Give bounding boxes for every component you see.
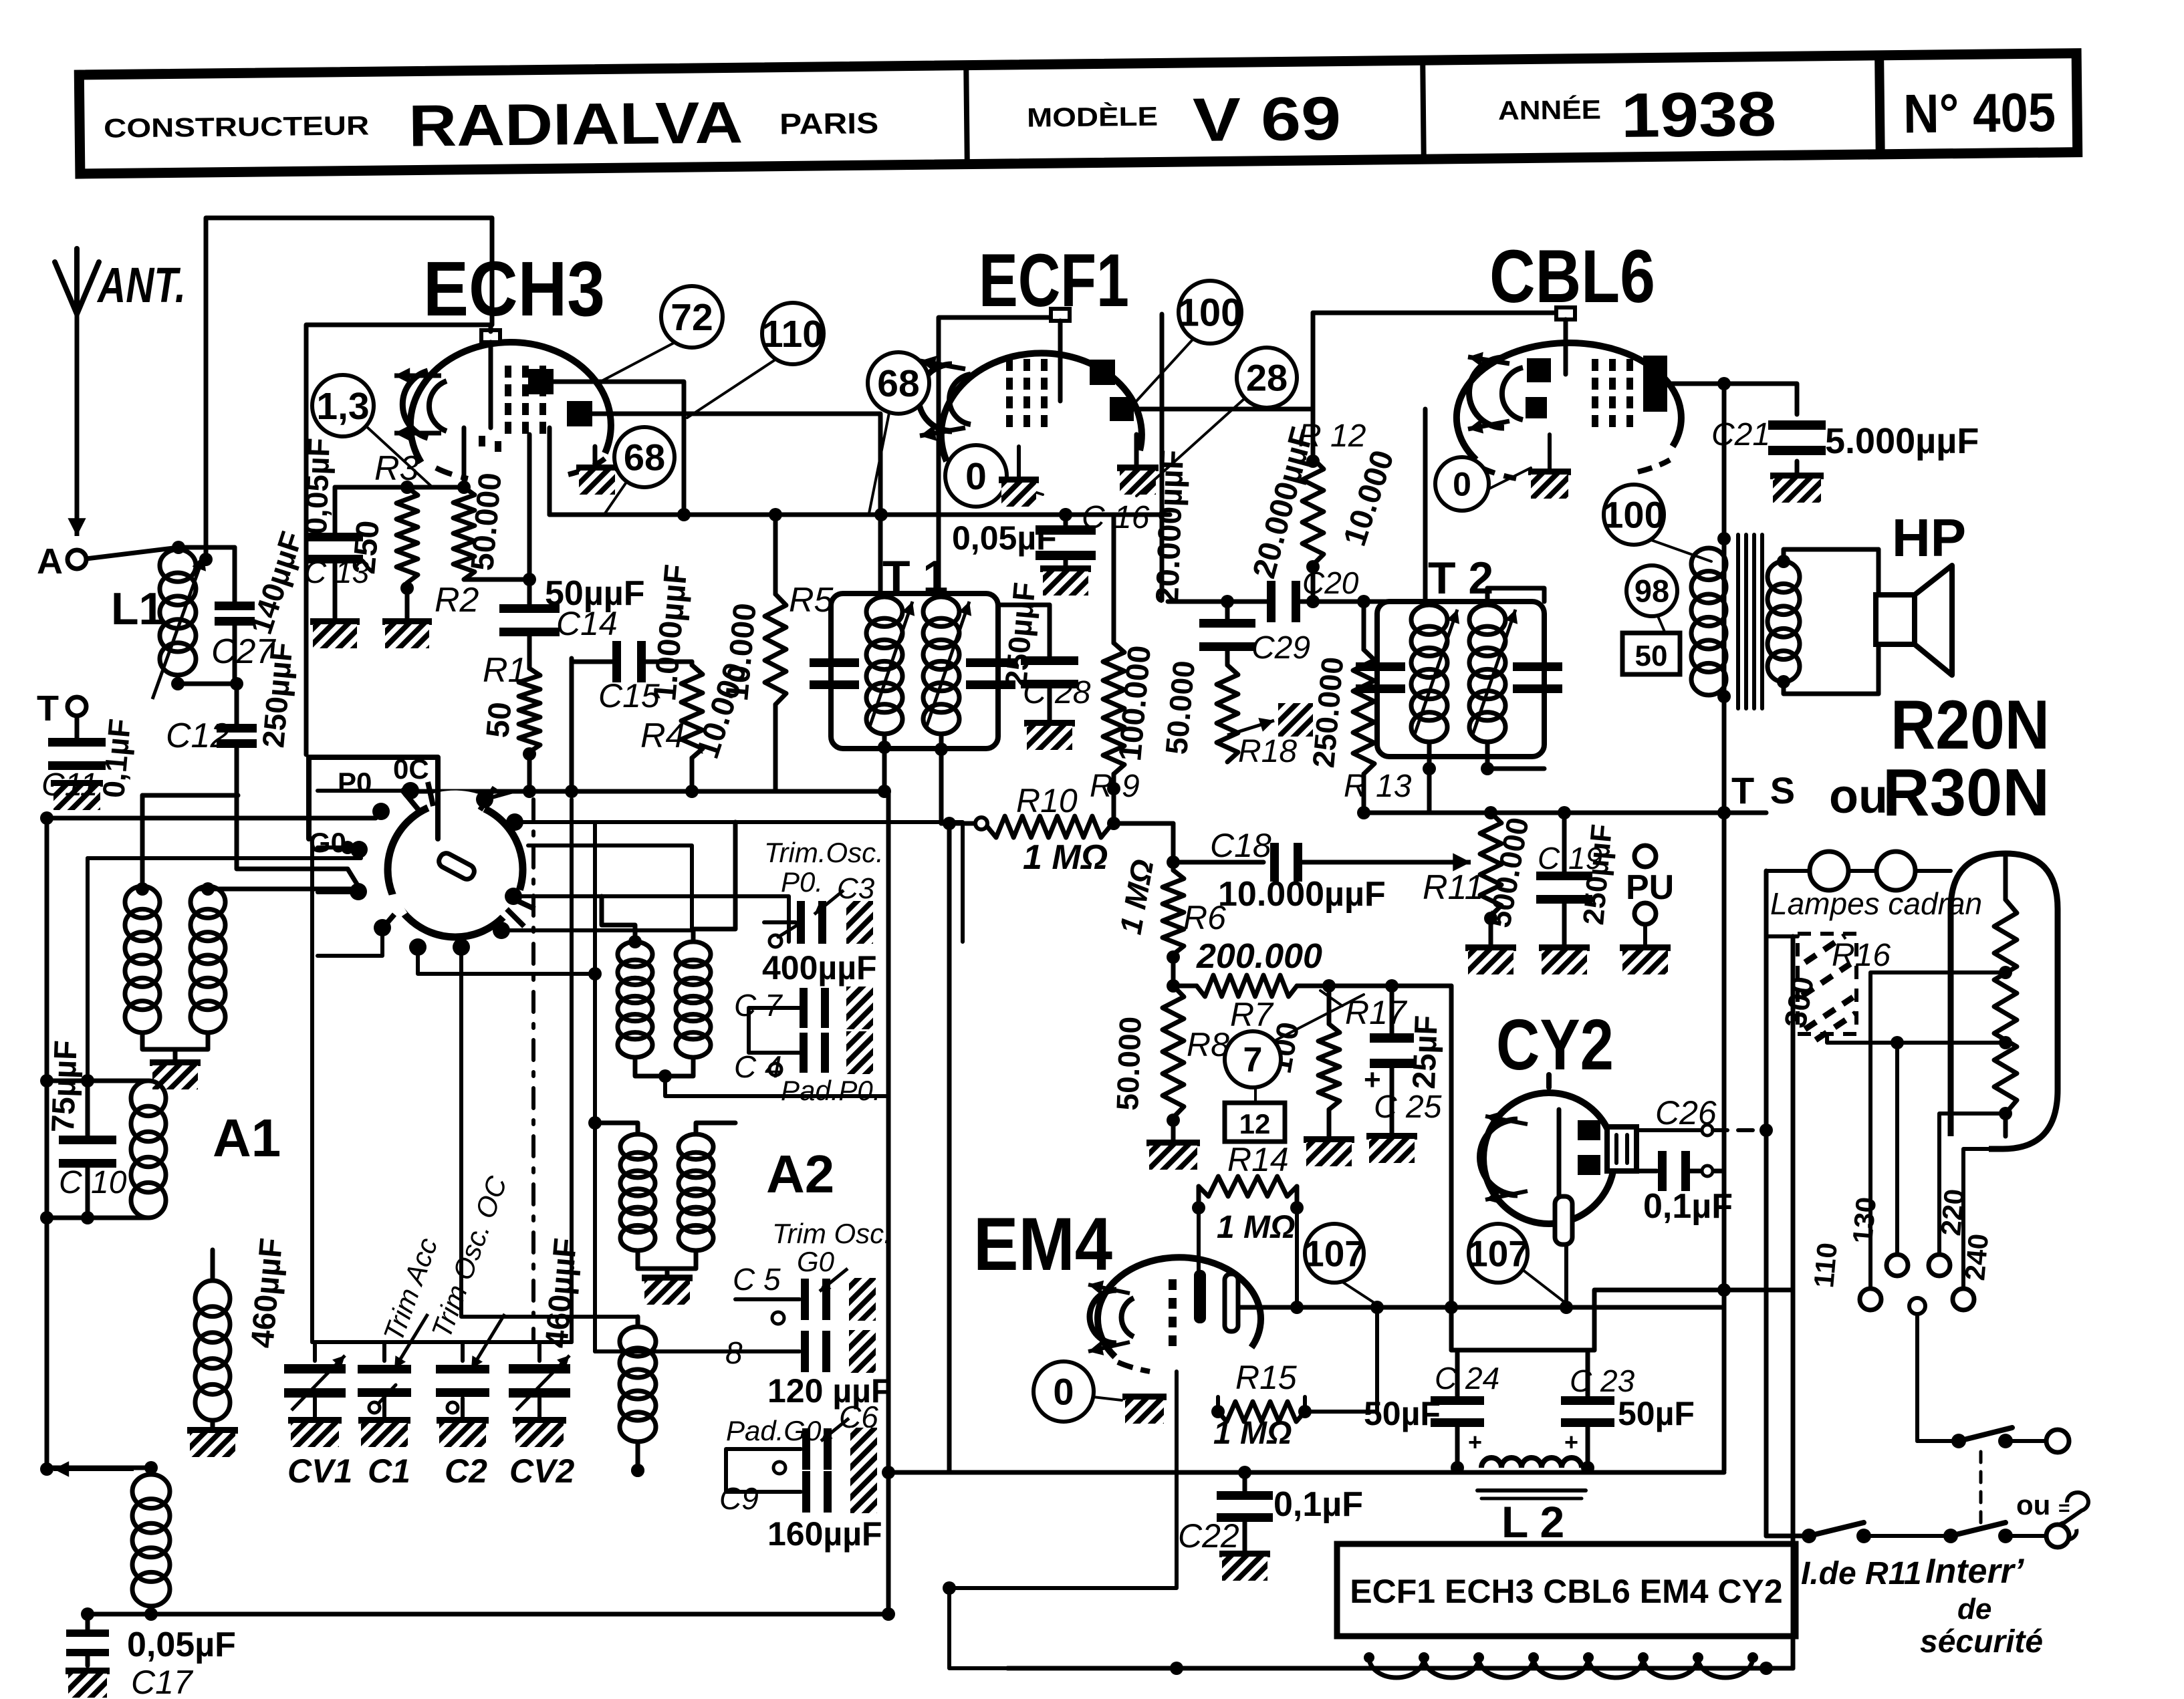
label ou R30N <box>1829 755 2050 830</box>
label tube ECF1 <box>979 239 1129 322</box>
osc pair coil right <box>191 886 225 1033</box>
switch wire a <box>318 789 410 793</box>
svg-text:ECH3: ECH3 <box>423 245 605 332</box>
wire CBL6 anode out <box>1667 377 1731 390</box>
ECF1 grids <box>1006 359 1048 427</box>
wire C15 left <box>570 658 574 791</box>
ground C28 <box>1024 723 1075 750</box>
label 120µµF <box>767 1372 891 1410</box>
wire ECH3 box left <box>548 428 552 515</box>
circle 100 ECF1 <box>1136 281 1242 401</box>
label GO <box>309 827 346 858</box>
switch mains upper <box>1917 1428 2069 1452</box>
tube lineup text <box>1350 1573 1782 1610</box>
svg-text:5.000µµF: 5.000µµF <box>1825 421 1979 461</box>
cap C5 <box>735 1269 876 1324</box>
svg-text:75µµF: 75µµF <box>45 1040 84 1134</box>
CY2 heater bottom <box>1560 1245 1573 1314</box>
label 400µµF <box>762 949 877 987</box>
vert 2171 <box>1445 986 1458 1350</box>
svg-text:200.000: 200.000 <box>1196 937 1322 976</box>
svg-text:V 69: V 69 <box>1193 85 1342 154</box>
svg-text:1 MΩ: 1 MΩ <box>1023 838 1108 877</box>
resistor R10 <box>941 816 1150 837</box>
label C23 <box>1570 1363 1635 1398</box>
label R18 <box>1238 734 1297 769</box>
ground CV1 <box>288 1420 342 1447</box>
circle 107 CY2 <box>1467 1224 1564 1302</box>
label 50 <box>480 700 518 739</box>
resistor R8 <box>1163 986 1184 1118</box>
terminal A <box>37 541 86 581</box>
ground C13 <box>310 622 360 648</box>
svg-text:107: 107 <box>1304 1232 1365 1274</box>
svg-text:R2: R2 <box>435 581 479 620</box>
capacitor C27 <box>215 547 255 684</box>
tube ECF1 envelope <box>919 309 1142 477</box>
wire R7 to R17 <box>1327 986 1332 1024</box>
label 10.000µµF <box>1218 875 1386 914</box>
label 5000µµF <box>1825 421 1979 461</box>
CBL6 anode plate <box>1643 356 1667 412</box>
dropper loop <box>1951 854 2058 1149</box>
svg-text:0: 0 <box>1453 466 1471 503</box>
svg-text:R11: R11 <box>1423 868 1484 907</box>
label C14 <box>556 605 618 642</box>
svg-text:EM4: EM4 <box>973 1202 1112 1286</box>
switch stub e <box>318 928 382 956</box>
label Trim Osc OC <box>425 1172 513 1342</box>
wire node L1-C27 <box>178 677 243 690</box>
capacitor C16 <box>1036 508 1096 569</box>
svg-text:0,05µF: 0,05µF <box>952 519 1057 557</box>
osc coil A1low top <box>211 1250 215 1281</box>
A2 coil pair1 R <box>676 942 711 1057</box>
T2 secondary coil <box>1469 605 1505 742</box>
CY2 heater <box>1555 1109 1572 1245</box>
capacitor C1 <box>358 1342 411 1418</box>
svg-text:1,3: 1,3 <box>316 385 369 428</box>
ground C2 <box>437 1420 489 1447</box>
resistor R12 <box>1302 454 1324 573</box>
capacitor C22 <box>1217 1472 1273 1554</box>
svg-text:+: + <box>1564 1428 1578 1456</box>
svg-text:N° 405: N° 405 <box>1903 82 2056 144</box>
switch wire right2 <box>515 822 963 942</box>
svg-text:MODÈLE: MODÈLE <box>1027 102 1158 133</box>
svg-text:107: 107 <box>1467 1232 1529 1274</box>
resistor R2 <box>453 487 475 579</box>
svg-text:C 28: C 28 <box>1023 675 1091 710</box>
coil ant bottom lead <box>144 1606 158 1621</box>
label 160µµF <box>767 1515 882 1553</box>
svg-text:C2: C2 <box>445 1452 487 1490</box>
label C1 <box>368 1452 410 1490</box>
svg-text:C 24: C 24 <box>1435 1361 1499 1396</box>
wire T2 bottoms <box>1423 742 1494 813</box>
CBL6 grids <box>1592 359 1633 427</box>
label Interr <box>1920 1552 2043 1660</box>
capacitor C11 <box>48 716 106 770</box>
label tube ECH3 <box>423 245 605 332</box>
capacitor C17 <box>66 1607 109 1666</box>
tap4 <box>1963 1149 1989 1289</box>
label 0,1µF CY2 <box>1643 1187 1733 1226</box>
label C13 <box>304 555 370 590</box>
label C29 <box>1251 630 1310 666</box>
svg-text:Pad.P0.: Pad.P0. <box>781 1075 880 1106</box>
svg-text:10.000µµF: 10.000µµF <box>1218 875 1386 914</box>
ECF1 anode pentode <box>1110 397 1134 421</box>
label C8l <box>725 1335 743 1370</box>
T2 arrows <box>1414 610 1518 737</box>
bus 2496 <box>1007 1662 1793 1675</box>
ECF1 cathode arrows <box>920 356 965 440</box>
ECF1 cathode stub <box>999 446 1039 507</box>
svg-text:12: 12 <box>1239 1108 1271 1140</box>
capacitor C24 <box>1431 1350 1484 1474</box>
svg-text:160µµF: 160µµF <box>767 1515 882 1553</box>
TS primary coil <box>1691 539 1726 708</box>
bottom bus left <box>88 1607 895 1621</box>
label R9 <box>1090 769 1140 804</box>
svg-text:130: 130 <box>1846 1196 1882 1245</box>
svg-text:R 12: R 12 <box>1298 418 1366 454</box>
capacitor C2 <box>436 1342 489 1418</box>
svg-text:T 2: T 2 <box>1428 553 1493 604</box>
resistor R1 <box>519 668 540 752</box>
arrow C2 <box>471 1314 505 1369</box>
label 0,05µF C16 <box>952 519 1057 557</box>
ground A1low <box>187 1420 238 1457</box>
antenna ANT <box>55 249 186 314</box>
label C5 <box>733 1262 781 1297</box>
label C10 <box>59 1165 127 1200</box>
A2 coil pair2 R <box>679 1134 713 1251</box>
A2 pair1 bottom <box>635 1057 693 1083</box>
tap1 <box>1870 966 2012 1289</box>
wire T1 sec top <box>937 585 941 592</box>
CBL6 screen squares <box>1526 358 1551 418</box>
svg-text:PARIS: PARIS <box>779 107 879 141</box>
terminal 220 <box>1929 1188 1970 1276</box>
label Trim Acc <box>377 1234 443 1345</box>
label C12 <box>166 716 229 755</box>
tube lineup box <box>1337 1544 1796 1636</box>
label C11 <box>41 767 98 803</box>
svg-text:0,05µF: 0,05µF <box>298 437 336 535</box>
svg-text:ECF1 ECH3 CBL6 EM4 CY2: ECF1 ECH3 CBL6 EM4 CY2 <box>1350 1573 1782 1610</box>
label 460µµF CV2 <box>539 1236 584 1349</box>
circle 110 <box>687 303 824 418</box>
EM4 ground <box>1122 1397 1167 1424</box>
label R20N <box>1891 686 2050 764</box>
circle 0 ECF1 <box>945 445 1043 507</box>
svg-text:R16: R16 <box>1832 938 1891 973</box>
osc coil A1low <box>195 1281 230 1420</box>
svg-text:C11: C11 <box>41 767 98 803</box>
wire left col top <box>45 818 49 1470</box>
capacitor C10 <box>59 1081 116 1218</box>
label C9 <box>719 1481 759 1516</box>
T1 arrows <box>869 602 971 729</box>
svg-text:R18: R18 <box>1238 734 1297 769</box>
wire top to R11 <box>1364 806 1766 819</box>
variable capacitor CV1 <box>284 1342 346 1418</box>
arrow C18 to R11 <box>1309 853 1471 871</box>
wire C7C4 left <box>749 1008 775 1053</box>
svg-text:50: 50 <box>480 700 518 739</box>
svg-text:I.de R11: I.de R11 <box>1801 1556 1922 1591</box>
T1 capacitor primary <box>810 658 859 689</box>
label 0,05µF C13 <box>298 437 336 535</box>
label 250µµF <box>255 641 299 749</box>
R16 bottom wire <box>1827 1034 1897 1043</box>
switch I.deR11 <box>1802 1523 1947 1543</box>
band switch rotor <box>378 782 535 937</box>
svg-text:CONSTRUCTEUR: CONSTRUCTEUR <box>104 111 370 143</box>
svg-text:240: 240 <box>1959 1232 1994 1282</box>
title block header <box>79 53 2077 175</box>
svg-text:C 25: C 25 <box>1374 1089 1442 1125</box>
label R13 <box>1344 769 1412 804</box>
svg-text:8: 8 <box>725 1335 743 1370</box>
resistor R5 <box>765 515 786 791</box>
label C24 <box>1435 1361 1499 1396</box>
label C21 <box>1711 417 1770 452</box>
bus 2203 <box>631 1464 1724 1479</box>
svg-text:C 23: C 23 <box>1570 1363 1635 1398</box>
cable scallop <box>1364 1652 1758 1678</box>
label 460µµF CV1 <box>245 1236 289 1349</box>
ECH3 anode hexode <box>567 401 592 426</box>
label 100 R17 <box>1263 1019 1306 1076</box>
bus 770 <box>550 508 1170 521</box>
label A1 <box>213 1108 281 1168</box>
A2 single bottom <box>631 1442 644 1477</box>
ground R17 <box>1304 1109 1354 1166</box>
GO contact <box>341 841 354 854</box>
circle 7 <box>1225 995 1364 1103</box>
capacitor 0,1uF CY2 <box>1636 1151 1724 1191</box>
resistor R4 <box>681 665 703 798</box>
svg-text:ANNÉE: ANNÉE <box>1498 94 1601 126</box>
circle 68 ECH3 <box>605 427 675 513</box>
wire A to L1 <box>86 541 235 559</box>
wire anode2 to T1 <box>592 414 880 592</box>
ground PU <box>1620 924 1671 974</box>
ECF1 anode triode <box>1090 360 1115 385</box>
label L2 <box>1501 1497 1564 1547</box>
A2 pair1 tops <box>602 822 735 948</box>
plug glyph <box>2056 1492 2088 1540</box>
bus 900 <box>1168 595 1425 608</box>
coil A1 <box>131 1081 166 1218</box>
svg-text:0,1µF: 0,1µF <box>1643 1187 1733 1226</box>
trimmer feed bus <box>312 839 572 1342</box>
label R12 <box>1298 418 1366 454</box>
svg-text:CY2: CY2 <box>1496 1004 1614 1085</box>
label C7 <box>734 988 783 1023</box>
label 300 <box>1778 974 1821 1031</box>
resistor R13 <box>1353 602 1374 774</box>
label 20.000µµF a <box>1150 449 1191 605</box>
CBL6 cathode arrows <box>1468 352 1509 434</box>
vert A2 right2 <box>943 817 956 1595</box>
svg-text:C 10: C 10 <box>59 1165 127 1200</box>
capacitor C28 <box>998 605 1078 723</box>
label R15 <box>1235 1359 1297 1396</box>
label C27 <box>211 632 276 671</box>
svg-text:0: 0 <box>965 455 987 498</box>
label tube CY2 <box>1496 1004 1614 1085</box>
svg-text:A2: A2 <box>766 1144 834 1204</box>
svg-text:100: 100 <box>1178 291 1243 334</box>
CBL6 cathode ground <box>1528 434 1571 499</box>
wire EM4 target out <box>1238 1301 1724 1314</box>
wire T2 sec top <box>1487 588 1544 602</box>
svg-text:A1: A1 <box>213 1108 281 1168</box>
A2 pair2 bottom gnd <box>638 1251 696 1305</box>
label TrimOscGO <box>772 1218 892 1277</box>
label TrimOscPO <box>764 837 884 905</box>
label R2 <box>435 581 479 620</box>
svg-text:C3: C3 <box>837 872 875 905</box>
EM4 bottom lead <box>949 1371 1177 1588</box>
label 50µµF <box>545 574 645 613</box>
wire T1 bottoms <box>878 734 948 823</box>
arrow into A <box>68 468 86 536</box>
svg-text:C12: C12 <box>166 716 229 755</box>
svg-text:0C: 0C <box>393 753 429 785</box>
svg-text:C17: C17 <box>131 1664 194 1699</box>
tap2 <box>1891 1036 2012 1255</box>
label 25µF <box>1407 1015 1445 1089</box>
box 50 <box>1622 633 1680 674</box>
label PadGO <box>726 1415 822 1446</box>
TS core <box>1738 535 1762 708</box>
cap C4 <box>769 1031 873 1075</box>
label 50.000 R18 <box>1159 659 1201 756</box>
label R11 <box>1423 868 1484 907</box>
switch box PO OC <box>309 757 438 839</box>
svg-text:68: 68 <box>877 362 919 405</box>
svg-text:R7: R7 <box>1230 996 1274 1033</box>
svg-text:100: 100 <box>1602 494 1665 536</box>
label C22 <box>1178 1517 1239 1555</box>
wire R9 bottom <box>1107 774 1120 823</box>
ECH3 cathode ground <box>576 446 618 495</box>
A2 single top <box>588 967 638 1327</box>
svg-text:C22: C22 <box>1178 1517 1239 1555</box>
svg-text:sécurité: sécurité <box>1920 1624 2043 1660</box>
capacitor C23 <box>1561 1350 1614 1474</box>
label C4 <box>734 1049 782 1084</box>
capacitor C13 <box>307 487 363 622</box>
ground R3 <box>382 581 432 648</box>
circle 72 <box>602 286 723 381</box>
svg-text:Trim.Osc.: Trim.Osc. <box>764 837 884 868</box>
ground C11 <box>51 783 103 810</box>
wire R1 bottom <box>523 747 536 791</box>
switch wire c <box>318 845 348 849</box>
wire R10 to R6 <box>1114 823 1180 869</box>
osc pair coil left <box>125 886 160 1033</box>
resistor R9 <box>1103 515 1124 774</box>
resistor R16 dashed <box>1798 934 1856 1040</box>
vert A2 right <box>882 794 895 1614</box>
svg-text:50.000: 50.000 <box>1110 1016 1148 1111</box>
circle 68 mid <box>868 352 929 513</box>
coil ant top lead <box>47 1461 158 1474</box>
label 10.000 R4 <box>690 658 754 763</box>
svg-text:C29: C29 <box>1251 630 1310 666</box>
A2 coil pair2 L <box>620 1134 655 1251</box>
label R1 <box>483 651 527 690</box>
label 50µF C23 <box>1618 1395 1695 1432</box>
wire R6 bottom node <box>1167 950 1180 993</box>
svg-text:CV1: CV1 <box>287 1452 352 1490</box>
CY2 anode squares <box>1578 1120 1600 1175</box>
label PadPO <box>781 1075 880 1106</box>
wire L1 bottom <box>171 675 185 690</box>
svg-text:G0: G0 <box>309 827 346 858</box>
resistor R15 <box>1218 1402 1305 1422</box>
svg-text:C9: C9 <box>719 1481 759 1516</box>
ECF1 box <box>939 317 1050 585</box>
svg-text:T: T <box>37 688 59 729</box>
capacitor C29 <box>1199 602 1255 665</box>
label PO <box>338 767 372 798</box>
wire ECF1anode to T2 <box>1423 409 1428 600</box>
wire R2 bottom <box>464 573 536 586</box>
switch wire right3 <box>513 896 789 942</box>
label R10 <box>1016 782 1078 819</box>
svg-text:1 MΩ: 1 MΩ <box>1213 1416 1292 1451</box>
box 12 <box>1225 1103 1285 1142</box>
T1 capacitor secondary <box>966 658 1015 689</box>
wire I.deR11 <box>1766 1534 1805 1539</box>
label R14 <box>1227 1141 1289 1178</box>
variable capacitor CV2 <box>509 1342 570 1418</box>
svg-text:0,05µF: 0,05µF <box>127 1625 236 1664</box>
A1 bottom node <box>40 1211 148 1224</box>
resistor R18 <box>1217 665 1313 762</box>
capacitor C14 <box>499 579 560 668</box>
capacitor C18 <box>1173 843 1310 882</box>
svg-text:110: 110 <box>1808 1241 1843 1289</box>
label tube EM4 <box>973 1202 1112 1286</box>
resistor R3 <box>396 487 418 622</box>
label L1 <box>111 583 164 634</box>
rail B+ vertical <box>1717 384 1731 1470</box>
wire antenna down <box>75 314 80 521</box>
A2 pair1 bottom out <box>665 1076 888 1096</box>
ground C19 <box>1539 948 1590 974</box>
capacitor C25 <box>1364 986 1414 1136</box>
label C25 <box>1374 1089 1442 1125</box>
svg-text:C18: C18 <box>1210 827 1271 864</box>
arrow AVC left <box>40 1461 134 1477</box>
label C2 <box>445 1452 487 1490</box>
T2 capacitor primary <box>1356 662 1405 693</box>
label 50µF C24 <box>1364 1395 1441 1432</box>
EM4 electrode 1 <box>1194 1270 1206 1323</box>
label 500.000 <box>1482 815 1536 930</box>
label T1 <box>882 551 948 602</box>
wire ECF1 box right <box>1160 314 1165 600</box>
ground C22 <box>1219 1554 1270 1581</box>
